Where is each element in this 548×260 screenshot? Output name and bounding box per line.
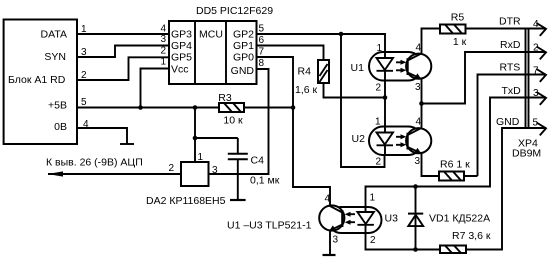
- mcu divider left: [194, 21, 196, 84]
- svg-text:3: 3: [212, 165, 218, 176]
- svg-text:0В: 0В: [54, 121, 67, 133]
- wire GP2 down to U2 pin2: [341, 34, 385, 167]
- wire GND net: [366, 128, 547, 250]
- wire DATA to GP3: [77, 33, 169, 35]
- svg-text:1: 1: [375, 117, 381, 128]
- svg-text:R3: R3: [218, 92, 232, 104]
- resistor R7: [440, 246, 466, 254]
- svg-text:GP3: GP3: [171, 29, 192, 41]
- svg-text:GP4: GP4: [171, 40, 192, 52]
- wire GP0 to U3 pin4: [257, 57, 331, 206]
- node U1 pin3 junction: [419, 101, 424, 106]
- wire +5V rail: [77, 107, 293, 109]
- svg-text:R5: R5: [451, 12, 465, 24]
- wire TxD net: [366, 98, 547, 208]
- wire GND pin8 to DA2 pin3: [209, 69, 269, 174]
- pin 3 arrow: [537, 92, 547, 105]
- node VD1 bottom junction: [413, 247, 418, 252]
- svg-text:5: 5: [259, 24, 265, 35]
- svg-text:1,6 к: 1,6 к: [295, 84, 318, 96]
- svg-text:R6 1 к: R6 1 к: [440, 159, 470, 171]
- svg-text:R4: R4: [298, 66, 312, 78]
- svg-text:2: 2: [160, 46, 166, 57]
- svg-text:К выв. 26 (-9В) АЦП: К выв. 26 (-9В) АЦП: [46, 157, 143, 169]
- svg-text:3: 3: [160, 34, 166, 45]
- svg-text:1: 1: [376, 43, 382, 54]
- svg-text:4: 4: [415, 117, 421, 128]
- svg-text:2: 2: [169, 163, 175, 174]
- pin 7 arrow: [537, 69, 547, 82]
- svg-text:1 к: 1 к: [453, 36, 467, 48]
- svg-text:RxD: RxD: [500, 39, 521, 51]
- arrow to ADC: [48, 171, 64, 176]
- regulator DA2 box: [181, 162, 209, 186]
- block A1 box: [4, 20, 77, 145]
- svg-text:4: 4: [83, 119, 89, 130]
- svg-text:5: 5: [81, 97, 87, 108]
- mcu divider right: [225, 21, 227, 84]
- wire U1 pin2 to U2 pin1: [384, 81, 386, 127]
- svg-text:U1 –U3 TLP521-1: U1 –U3 TLP521-1: [227, 220, 312, 232]
- svg-text:1: 1: [160, 57, 166, 68]
- svg-text:1: 1: [198, 152, 204, 163]
- svg-text:6: 6: [259, 35, 265, 46]
- node GP2 junction: [339, 32, 344, 37]
- svg-text:U2: U2: [352, 133, 366, 145]
- resistor R6: [439, 172, 464, 181]
- svg-text:2: 2: [370, 235, 376, 246]
- pin 4 arrow: [537, 23, 547, 36]
- svg-text:TxD: TxD: [502, 85, 522, 97]
- svg-text:MCU: MCU: [199, 29, 223, 41]
- svg-text:2: 2: [375, 157, 381, 168]
- svg-text:4: 4: [160, 24, 166, 35]
- svg-text:3: 3: [414, 156, 420, 167]
- svg-text:4: 4: [533, 19, 539, 30]
- wire Vcc feeder: [141, 69, 170, 108]
- svg-text:GND: GND: [496, 116, 520, 128]
- wire RD to GP5: [77, 57, 169, 80]
- optocoupler U3: [319, 205, 381, 233]
- svg-text:3: 3: [415, 82, 421, 93]
- svg-text:Vcc: Vcc: [171, 64, 189, 76]
- svg-text:3: 3: [333, 235, 339, 246]
- wire GP1 to R4: [257, 46, 386, 98]
- wire DA2 pin1 feeder: [194, 108, 196, 163]
- wire RTS net: [478, 75, 547, 177]
- svg-text:DTR: DTR: [499, 16, 521, 28]
- pin 5 arrow: [537, 123, 547, 136]
- mcu DD5 box: [169, 21, 257, 84]
- svg-text:10 к: 10 к: [223, 115, 243, 127]
- ground 0V: [120, 143, 134, 145]
- svg-text:C4: C4: [251, 155, 265, 167]
- node +5V DA2 junction: [193, 105, 198, 110]
- svg-text:7: 7: [259, 47, 265, 58]
- wire U3 pin3 to ground: [329, 231, 331, 256]
- wire GP2 to U1 pin1: [257, 34, 386, 52]
- optocoupler U1: [369, 52, 431, 81]
- svg-text:R7 3,6 к: R7 3,6 к: [452, 230, 491, 242]
- svg-text:4: 4: [415, 43, 421, 54]
- connector XP4 double line: [526, 29, 529, 129]
- svg-text:GP5: GP5: [171, 52, 192, 64]
- wire U1 pin4 to R5: [422, 29, 547, 55]
- svg-text:7: 7: [533, 66, 539, 77]
- wire SYN to GP4: [77, 46, 169, 58]
- ground U3: [323, 254, 336, 256]
- svg-text:3: 3: [533, 88, 539, 99]
- svg-text:Блок А1 RD: Блок А1 RD: [8, 74, 66, 86]
- svg-text:3: 3: [81, 47, 87, 58]
- svg-text:GP1: GP1: [233, 40, 254, 52]
- svg-text:DA2 КР1168ЕН5: DA2 КР1168ЕН5: [146, 195, 226, 207]
- pin 2 arrow: [537, 47, 547, 60]
- svg-text:DATA: DATA: [41, 29, 67, 41]
- node Vcc junction: [138, 105, 143, 110]
- wire to C4: [195, 137, 238, 139]
- wire U1 pin3 RxD net: [422, 52, 547, 128]
- svg-text:2: 2: [375, 83, 381, 94]
- resistor R5: [440, 25, 466, 34]
- svg-text:0,1 мк: 0,1 мк: [250, 175, 280, 187]
- node VD1 top junction: [413, 184, 418, 189]
- svg-text:GP0: GP0: [233, 52, 254, 64]
- svg-text:RTS: RTS: [500, 62, 521, 74]
- svg-text:DD5 PIC12F629: DD5 PIC12F629: [196, 5, 273, 17]
- resistor R3: [219, 103, 244, 112]
- diode VD1: [408, 187, 423, 250]
- capacitor C4: [228, 138, 248, 200]
- resistor R4: [318, 60, 329, 83]
- svg-text:U1: U1: [351, 62, 365, 74]
- node R4 U1 U2 junction: [383, 95, 388, 100]
- node C4 tee: [193, 136, 198, 141]
- svg-text:4: 4: [324, 194, 330, 205]
- svg-text:DB9M: DB9M: [512, 148, 541, 160]
- svg-text:8: 8: [259, 58, 265, 69]
- wire U2 pin3 to R6: [422, 153, 478, 176]
- svg-text:2: 2: [533, 43, 539, 54]
- svg-text:GP2: GP2: [233, 29, 254, 41]
- wire DA2 pin2 out: [48, 173, 181, 175]
- wire 0V: [77, 128, 127, 144]
- ground C4: [230, 199, 246, 201]
- svg-text:1: 1: [370, 193, 376, 204]
- svg-text:VD1 КД522А: VD1 КД522А: [429, 213, 490, 225]
- svg-text:+5В: +5В: [48, 100, 67, 112]
- svg-text:2: 2: [81, 70, 87, 81]
- node R3 right junction: [291, 105, 296, 110]
- svg-text:GND: GND: [231, 65, 255, 77]
- optocoupler U2: [369, 127, 431, 156]
- svg-text:1: 1: [81, 24, 87, 35]
- svg-text:SYN: SYN: [44, 51, 66, 63]
- svg-text:5: 5: [533, 118, 539, 129]
- svg-text:U3: U3: [385, 213, 399, 225]
